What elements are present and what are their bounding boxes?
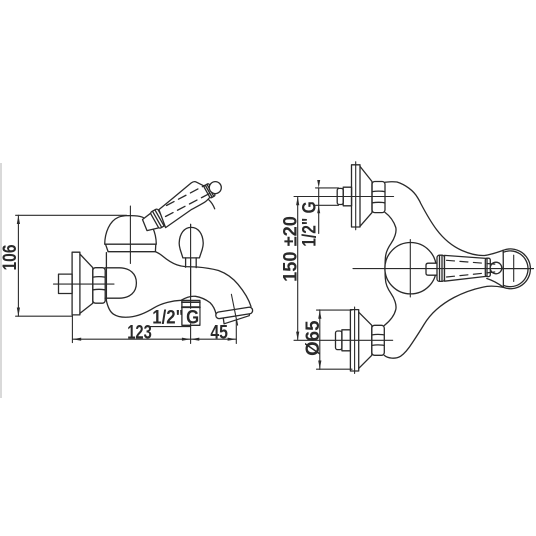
knob front circle	[385, 243, 436, 294]
collar rings	[150, 208, 166, 228]
bottom hex nut	[372, 325, 385, 355]
wire dimension diam 65	[317, 310, 353, 370]
top hex nut	[372, 182, 385, 213]
lever front: ball	[490, 262, 502, 274]
diverter knob	[179, 227, 203, 258]
capsule centerline	[513, 255, 515, 281]
svg-text:1/2" G: 1/2" G	[298, 201, 320, 247]
lever front: neck	[426, 263, 437, 275]
capsule inner arc	[503, 251, 528, 287]
label 1/2 G left	[188, 309, 199, 324]
lever front: cone	[445, 255, 487, 281]
capsule vertical edge	[502, 250, 504, 287]
lever front: hidden dashes	[447, 260, 498, 277]
123 arrows	[73, 338, 82, 341]
1/2G right arrows (outside)	[317, 180, 320, 188]
top connection stub	[337, 188, 343, 204]
bottom flange vertical centerline	[354, 307, 356, 374]
wire dimension 150 line	[294, 197, 394, 341]
lever front: rib band	[485, 258, 490, 276]
outlet connection stub 1/2G	[182, 300, 200, 325]
body bottom sweep	[106, 296, 216, 317]
aerator centerline	[231, 294, 237, 325]
hex nut	[93, 268, 105, 304]
spout aerator	[215, 307, 254, 325]
wire dimension 123/45 line	[72, 316, 236, 344]
lever handle assembly	[143, 182, 222, 231]
wire dimension 106 line	[16, 215, 127, 316]
flange centerline	[54, 283, 115, 285]
main horizontal centerline	[353, 268, 534, 270]
bottom connection stub	[336, 331, 342, 350]
svg-text:106: 106	[0, 244, 21, 270]
150 arrows	[296, 197, 299, 206]
body plate left waist	[384, 212, 396, 325]
knob centerline redrawn over knob	[190, 224, 192, 296]
neck	[143, 211, 161, 231]
dome centerline	[129, 206, 131, 264]
flange plate	[72, 252, 80, 315]
svg-text:45: 45	[210, 321, 228, 343]
body plate outline	[384, 182, 530, 358]
tail below ball	[209, 200, 215, 209]
svg-text:123: 123	[127, 321, 152, 344]
bottom flange cone	[359, 312, 372, 368]
top flange cone	[360, 166, 372, 226]
svg-text:Ø65: Ø65	[302, 320, 323, 356]
dome band	[106, 244, 156, 251]
bell bottom line	[487, 279, 504, 288]
node stub centerline	[190, 224, 192, 343]
tip rib rings	[204, 183, 216, 198]
d65 arrows	[318, 310, 321, 319]
handle body	[159, 182, 212, 228]
bottom flange plate	[350, 310, 358, 371]
lever front: collar	[437, 255, 445, 281]
body boss lug	[105, 268, 136, 298]
hidden dashes	[166, 186, 211, 217]
106 arrows	[17, 215, 20, 224]
wall stub	[59, 274, 73, 293]
ball tip	[209, 182, 221, 194]
main centerline over lever	[425, 268, 534, 270]
top flange vertical centerline	[355, 162, 357, 230]
flange cone	[80, 254, 93, 313]
body left edge	[105, 253, 107, 301]
page edge artifact	[0, 163, 2, 398]
svg-text:1/2"G: 1/2"G	[152, 306, 199, 327]
dome cap	[105, 216, 157, 245]
top flange plate	[352, 165, 361, 227]
knob circle centerline	[409, 240, 411, 298]
body/spout top	[155, 252, 251, 307]
wire dimension 1/2G right	[316, 188, 339, 234]
